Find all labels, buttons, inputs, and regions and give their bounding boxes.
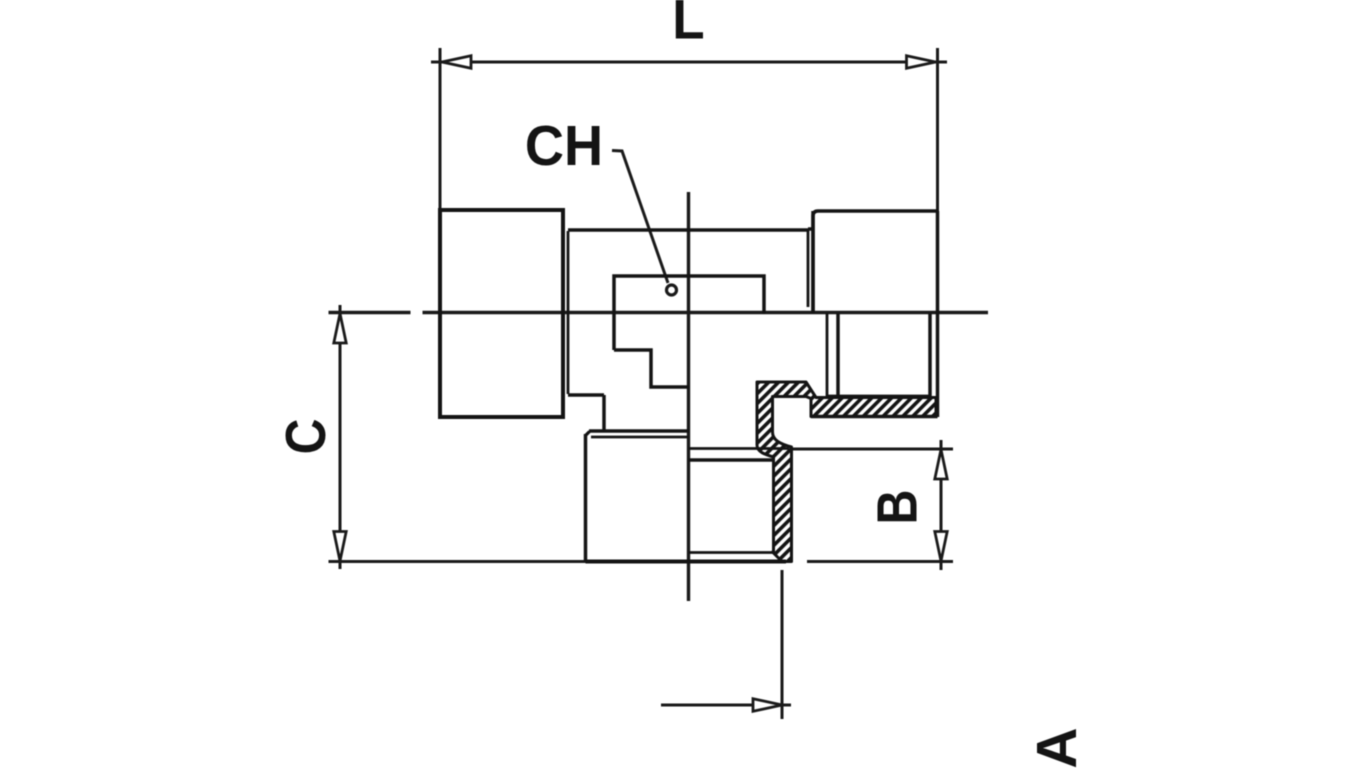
svg-text:A: A: [1025, 727, 1089, 768]
svg-text:C: C: [275, 419, 338, 455]
svg-text:B: B: [866, 490, 930, 525]
svg-text:L: L: [672, 0, 704, 51]
svg-text:CH: CH: [525, 114, 603, 178]
